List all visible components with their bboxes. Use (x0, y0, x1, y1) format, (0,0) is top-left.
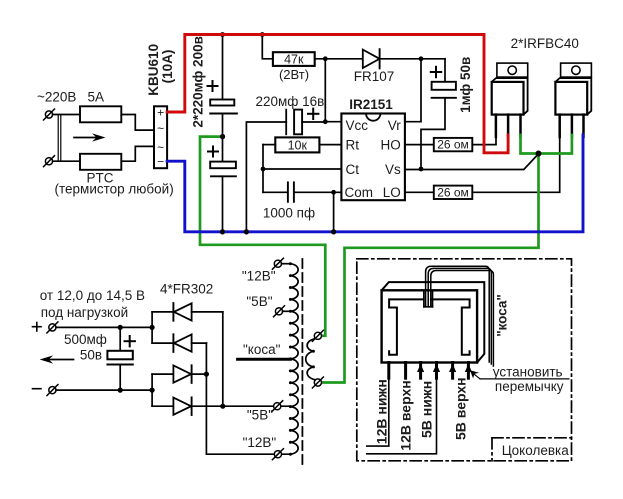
wire D4 to 5V tap (223, 405, 291, 407)
core dashed (301, 259, 303, 465)
svg-text:220мф 16в: 220мф 16в (256, 94, 325, 109)
svg-text:FR107: FR107 (354, 69, 395, 84)
svg-text:26 ом: 26 ом (437, 138, 469, 152)
label "kosa" rotated (495, 294, 510, 337)
svg-text:−: − (157, 154, 164, 168)
wire cord double line (58, 115, 61, 162)
svg-text:5В верхн: 5В верхн (452, 377, 468, 440)
label 220mF 16v (256, 94, 325, 109)
wire pin4 (367, 378, 437, 454)
svg-text:(10А): (10А) (160, 50, 175, 84)
kosa center tap thick (238, 358, 291, 361)
wire C3 neg to ground loop (246, 122, 286, 232)
pin labels left (345, 118, 374, 200)
svg-text:"12В": "12В" (243, 435, 277, 450)
wire LO to R4 (405, 191, 434, 193)
svg-text:Цоколевка: Цоколевка (502, 443, 570, 458)
svg-text:12В нижн: 12В нижн (374, 379, 390, 444)
svg-text:Com: Com (345, 185, 374, 200)
svg-text:4*FR302: 4*FR302 (160, 281, 213, 296)
terminal sec 5V lower (272, 401, 283, 412)
wire Vcc to IC (325, 121, 341, 123)
svg-text:"5В": "5В" (246, 294, 272, 309)
junction C3 blue bus (244, 229, 249, 234)
svg-text:"5В": "5В" (247, 408, 273, 423)
label 4*FR302 (160, 281, 213, 296)
corner label frame (492, 438, 572, 461)
label plus (33, 323, 42, 332)
diode FR107 (363, 49, 380, 68)
wire green source Q1 to node (521, 135, 572, 154)
label 500mF (64, 332, 107, 347)
svg-text:26 ом: 26 ом (437, 185, 469, 199)
transformer package 3D (382, 282, 485, 362)
capacitor C1 lead top (222, 35, 224, 100)
wire R4 to gate Q2 (472, 133, 559, 192)
wire Vr to Vb (405, 59, 421, 122)
label 5V verkhn rotated (452, 377, 468, 440)
label "kosa" (243, 342, 281, 357)
wire green node to primary bottom (322, 154, 539, 383)
capacitor C3 plate pos (294, 110, 302, 135)
diode D1 FR302 (152, 303, 223, 321)
terminal pri bottom (312, 377, 323, 388)
label "12V" top (242, 268, 276, 283)
junction red bus 47k (260, 32, 265, 37)
label 1000pF (263, 206, 315, 221)
arrow output direction (40, 355, 74, 363)
label ustanovit (493, 364, 563, 379)
capacitor C4 plate pos (432, 82, 456, 90)
resistor 10k (275, 137, 319, 152)
label KBU610 rotated (146, 44, 161, 96)
current direction arrow (74, 133, 106, 141)
svg-text:от 12,0 до 14,5 В: от 12,0 до 14,5 В (40, 288, 145, 303)
label ~220V (37, 90, 76, 105)
terminal sec 12V top (272, 258, 283, 269)
capacitor C4 lead top (444, 59, 446, 82)
svg-text:1000 пф: 1000 пф (263, 206, 315, 221)
label 12V nizhn rotated (374, 379, 390, 444)
tap 5V upper to spine (283, 310, 291, 312)
label 5A (88, 90, 105, 105)
svg-text:(2Вт): (2Вт) (279, 67, 309, 82)
capacitor C1 plate neg (210, 113, 237, 115)
capacitor C2 plate pos (210, 162, 236, 169)
svg-text:~220В: ~220В (37, 90, 76, 105)
svg-text:Vs: Vs (385, 162, 401, 177)
wire N to PTC (53, 160, 80, 162)
svg-text:47к: 47к (284, 52, 304, 66)
svg-text:2*220мф 200в: 2*220мф 200в (191, 36, 206, 127)
wire fuse to KBU ~1 (121, 115, 154, 131)
label 12V verkhn rotated (397, 380, 413, 450)
svg-text:2*IRFBC40: 2*IRFBC40 (511, 36, 579, 51)
svg-text:KBU610: KBU610 (146, 44, 161, 96)
svg-text:LO: LO (383, 185, 401, 200)
pinout dash-dot frame (357, 259, 572, 461)
junction Com (331, 190, 336, 195)
svg-text:Ct: Ct (346, 162, 360, 177)
wire minus rail (56, 389, 152, 391)
junction Vcc (323, 119, 328, 124)
svg-text:перемычку: перемычку (495, 379, 564, 394)
label (termistor any) (55, 182, 174, 197)
junction plus cap (118, 325, 123, 330)
label Tsokolevka (502, 443, 570, 458)
label FR107 (354, 69, 395, 84)
wire pin1 (367, 378, 389, 446)
bridge pin labels (157, 105, 164, 168)
terminal input N (44, 156, 55, 167)
label PTC (87, 171, 114, 186)
capacitor C5 plus sign (125, 336, 135, 346)
svg-text:под нагрузкой: под нагрузкой (41, 305, 128, 320)
svg-text:"коса": "коса" (495, 294, 510, 337)
label 1mF 50v rotated (458, 57, 473, 113)
wire green caps node to primary top (200, 137, 325, 336)
label "12V" bottom (243, 435, 277, 450)
braid wires (426, 266, 494, 366)
capacitor C2 plate neg (211, 175, 236, 177)
svg-text:Vr: Vr (388, 118, 402, 133)
diode D4 FR302 (152, 397, 223, 415)
svg-text:12В верхн: 12В верхн (397, 380, 413, 450)
capacitor C2 lead top (222, 137, 224, 162)
svg-text:Vcc: Vcc (346, 118, 369, 133)
pin labels right (381, 118, 402, 200)
wire L to fuse (53, 114, 80, 116)
wire Ct to IC (263, 168, 341, 170)
svg-text:1мф 50в: 1мф 50в (458, 57, 473, 113)
transistor Q1 IRFBC40 (492, 63, 528, 137)
wire Rt to IC (319, 144, 341, 146)
svg-text:500мф: 500мф (64, 332, 107, 347)
wire Com to blue bus (333, 192, 335, 232)
winding primary (306, 338, 317, 380)
pin arrowheads (417, 364, 472, 372)
resistor 47k (273, 52, 315, 66)
terminal out plus (47, 322, 58, 333)
wire sec top to spine (281, 263, 290, 265)
svg-text:5В нижн: 5В нижн (418, 381, 434, 438)
package core window left (389, 299, 424, 354)
label (2Wt) (279, 67, 309, 82)
wire Vcc vertical (324, 59, 326, 122)
junction blue bus restamp (220, 229, 336, 234)
junction minus cap (118, 388, 123, 393)
junction C2 blue bus (220, 229, 225, 234)
label (10A) rotated (160, 50, 175, 84)
wire R3 to gate Q1 (472, 133, 496, 145)
svg-text:IR2151: IR2151 (349, 97, 393, 112)
capacitor C2 plus sign (208, 147, 218, 157)
capacitor C5 lead top (119, 327, 121, 350)
thermistor PTC (80, 154, 121, 170)
terminal sec 12V bottom (272, 449, 283, 460)
terminal sec 5V upper (274, 306, 285, 317)
wire D1 to 5V bottom (222, 312, 224, 406)
wire FR107 cathode to 1mF (380, 58, 445, 60)
capacitor C4 plate neg (432, 97, 456, 99)
junction Ct (261, 167, 266, 172)
junction Com blue bus (331, 229, 336, 234)
diode D2 FR302 (152, 334, 206, 352)
svg-text:Rt: Rt (346, 138, 360, 153)
svg-text:HO: HO (381, 138, 401, 153)
jumper arrow (470, 370, 569, 379)
resistor R4 26 om (434, 186, 473, 199)
capacitor C5 lead bottom (119, 365, 121, 391)
junction 47k FR107 Vcc (323, 56, 328, 61)
fuse F1 5A (80, 106, 121, 122)
svg-text:10к: 10к (288, 139, 308, 153)
svg-text:+: + (157, 105, 164, 119)
wire D2 D3 to 12V bottom (206, 343, 290, 454)
label 2*IRFBC40 (511, 36, 579, 51)
terminal input L (44, 109, 55, 120)
wire diode bus lower (151, 374, 153, 406)
wire red bus to 47k (262, 35, 273, 59)
capacitor C1 plate pos (210, 100, 234, 106)
label 50v (80, 347, 102, 362)
capacitor C1 lead bottom (222, 114, 224, 137)
svg-text:~: ~ (157, 141, 164, 155)
op-amp U1 IR2151 box (341, 114, 405, 201)
wire left loop vertical (262, 145, 264, 193)
wire C4 to Vs (421, 98, 445, 169)
bridge KBU610 body (154, 106, 167, 168)
winding secondary (289, 262, 298, 456)
resistor R3 26 om (434, 138, 473, 151)
junction Vs (419, 167, 424, 172)
svg-text:"12В": "12В" (242, 268, 276, 283)
capacitor C3 plate neg (285, 110, 287, 135)
terminal pri top (312, 330, 323, 341)
node caps midpoint (220, 134, 225, 139)
svg-text:установить: установить (493, 364, 563, 379)
capacitor 1000pF (288, 182, 294, 201)
label minus (33, 388, 42, 390)
capacitor C5 plate pos (107, 351, 132, 360)
junction red bus cap (220, 32, 225, 37)
wire diode bus upper (151, 312, 153, 343)
svg-text:"коса": "коса" (243, 342, 281, 357)
package slot (424, 290, 433, 307)
package core window right (431, 299, 470, 354)
junction plus diodes (150, 325, 155, 330)
diode D3 FR302 (152, 365, 206, 383)
wire PTC to KBU ~2 (121, 146, 154, 161)
svg-text:~: ~ (157, 122, 164, 136)
capacitor C4 1mF plus (431, 67, 441, 77)
label "5V" lower (247, 408, 273, 423)
junction minus diodes (150, 388, 155, 393)
terminal out minus (47, 385, 58, 396)
junction D4 (220, 404, 225, 409)
label peremychku (495, 379, 564, 394)
capacitor C5 plate neg (107, 364, 132, 366)
svg-text:(термистор любой): (термистор любой) (55, 182, 174, 197)
junction Vb (419, 56, 424, 61)
wire HO to R3 (405, 144, 434, 146)
wire 1000pF left lead (263, 191, 287, 193)
wire 47k to FR107 anode (315, 58, 363, 60)
svg-text:50в: 50в (80, 347, 102, 362)
svg-text:5А: 5А (88, 90, 105, 105)
wire 10k left (263, 144, 275, 146)
label ot 12,0 do 14,5 V (40, 288, 145, 303)
wire Vs line (405, 154, 539, 170)
label 2*220mF 200v rotated (191, 36, 206, 127)
wire red positive rail (167, 35, 508, 153)
label IR2151 (349, 97, 393, 112)
label "5V" upper (246, 294, 272, 309)
label pod nagruzkoy (41, 305, 128, 320)
wire blue negative rail (167, 135, 583, 232)
wire C3 pos to Vcc (302, 121, 325, 123)
junction caps midpoint restamp (220, 134, 225, 139)
wire 1000pF to Com (295, 191, 342, 193)
capacitor C1 plus sign (208, 81, 218, 91)
package pins (389, 363, 469, 379)
node half-bridge (536, 151, 542, 157)
wire plus rail (56, 326, 152, 328)
label 5V nizhn rotated (418, 381, 434, 438)
capacitor C3 plus sign (308, 109, 318, 119)
transistor Q2 IRFBC40 (555, 63, 591, 137)
capacitor C2 lead bottom (222, 176, 224, 232)
junction D3 (204, 372, 209, 377)
